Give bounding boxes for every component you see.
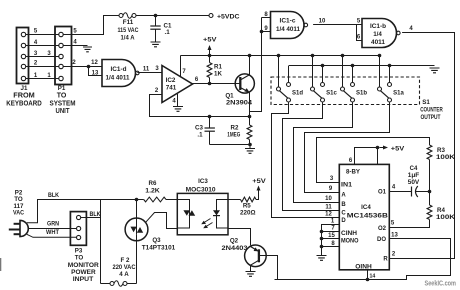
svg-text:MONITOR: MONITOR: [68, 262, 99, 269]
wire S1d output to IC4 pin12 D: [272, 102, 340, 217]
svg-text:D: D: [341, 218, 346, 224]
resistor R5 220ohm: [228, 196, 259, 216]
IC4 pin6 +5V: [349, 145, 405, 164]
wire row 5 (J1-P1 pin 5): [26, 34, 59, 36]
svg-text:KEYBOARD: KEYBOARD: [6, 100, 42, 107]
svg-text:IC3: IC3: [198, 178, 208, 185]
resistor R1 1K: [207, 56, 222, 84]
svg-text:COUNTER: COUNTER: [420, 107, 443, 114]
svg-text:SeekIC.com: SeekIC.com: [425, 281, 457, 288]
svg-text:C4: C4: [410, 166, 418, 172]
ground (IC4 pins): [317, 247, 327, 261]
resistor R6 1.2K: [144, 180, 178, 202]
svg-text:IC2: IC2: [166, 77, 176, 84]
svg-text:S1b: S1b: [356, 91, 367, 97]
svg-text:S1: S1: [422, 99, 430, 106]
svg-text:C3: C3: [195, 125, 203, 132]
svg-text:.1: .1: [197, 132, 203, 139]
terminal +5VDC: [209, 13, 240, 20]
svg-text:P1: P1: [58, 85, 66, 92]
wire IC2 output pin6 to Q1 base: [193, 77, 240, 85]
scan smudge: [0, 258, 1, 271]
svg-text:BLK: BLK: [90, 212, 102, 218]
svg-text:T14PT3101: T14PT3101: [142, 244, 176, 251]
svg-text:CINH: CINH: [341, 231, 357, 237]
svg-text:11: 11: [143, 67, 150, 73]
wire osc node to IC1-c inputs: [250, 18, 262, 112]
svg-text:+5V: +5V: [391, 145, 405, 152]
wire S1c output to IC4 pin11 C: [283, 102, 340, 210]
svg-text:1/4 A: 1/4 A: [121, 35, 135, 42]
svg-text:S1c: S1c: [326, 91, 337, 97]
svg-text:12: 12: [325, 212, 332, 218]
svg-text:WHT: WHT: [46, 230, 59, 236]
wire BLK from plug: [27, 193, 144, 223]
svg-text:J1: J1: [21, 85, 28, 92]
svg-text:.1: .1: [165, 29, 171, 36]
svg-text:POWER: POWER: [71, 269, 96, 276]
svg-text:+5V: +5V: [252, 178, 266, 185]
connector P1: [50, 27, 76, 115]
svg-text:10: 10: [325, 196, 332, 202]
wire fuse to +5VDC terminal: [136, 15, 209, 17]
svg-text:4 A: 4 A: [119, 271, 129, 278]
fuse F11 115VAC 1/4A: [118, 13, 139, 42]
svg-text:50V: 50V: [408, 180, 420, 186]
svg-text:TO: TO: [75, 254, 84, 261]
IC1-b input pins 5,6: [357, 19, 363, 41]
IC4 pin14 OINH stub: [366, 270, 376, 282]
IC4 pin4 O1 wire: [389, 185, 411, 192]
triac Q3 T14PT3101: [125, 198, 177, 284]
wire IC1-b output pin4 to IC4 pin2 R: [389, 26, 454, 259]
wire P3 top pin (BLK) to hot line / fuse leg: [81, 200, 101, 282]
ground (C1): [151, 42, 161, 47]
svg-text:R5: R5: [243, 202, 251, 209]
svg-text:13: 13: [92, 71, 99, 77]
switch S1a: [378, 54, 405, 102]
+5V arrow (R5): [252, 178, 266, 196]
P1 pin circles: [59, 32, 63, 80]
svg-text:S1d: S1d: [292, 91, 303, 97]
connector P3: [68, 212, 99, 283]
svg-text:1/4 4011: 1/4 4011: [106, 75, 131, 82]
svg-text:C: C: [341, 211, 346, 217]
transistor Q1 2N3904: [225, 74, 254, 107]
svg-text:8-BY: 8-BY: [346, 170, 360, 176]
wire IC1-c output pin10 to IC1-b inputs: [313, 19, 356, 25]
svg-text:SYSTEM: SYSTEM: [50, 100, 76, 107]
wire Q1 emitter to node (osc out): [248, 93, 252, 119]
wire P1 pin2 to IC1-d inputs: [63, 60, 102, 77]
svg-text:A: A: [341, 193, 346, 199]
svg-text:IC4: IC4: [361, 204, 371, 211]
+5V arrow (rail): [203, 37, 217, 58]
svg-text:1K: 1K: [214, 71, 222, 78]
svg-text:IC1-c: IC1-c: [280, 18, 297, 25]
wire IC1-d output to IC2 pin3: [137, 66, 162, 73]
IC IC4 MC14536B: [339, 164, 389, 270]
ground (Q2 collector): [246, 265, 256, 276]
pin number labels P1 right side: [72, 29, 77, 67]
ground (R2/C3): [245, 145, 255, 154]
svg-text:S1a: S1a: [393, 91, 404, 97]
svg-text:B: B: [341, 202, 346, 208]
svg-text:15: 15: [328, 233, 335, 239]
svg-text:R1: R1: [214, 64, 222, 71]
svg-text:11: 11: [325, 205, 332, 211]
svg-text:R4: R4: [437, 207, 445, 214]
wire IC2 pin7 to +5V rail: [181, 56, 187, 77]
ground (IC2 pin 4): [172, 94, 183, 111]
switch S1b: [341, 54, 368, 102]
svg-text:OUTPUT: OUTPUT: [421, 114, 441, 121]
svg-text:1/4 4011: 1/4 4011: [276, 26, 301, 33]
pin number labels J1 side: [34, 29, 52, 80]
wire Q1 collector to +5V rail: [248, 54, 252, 75]
capacitor C1 .1: [150, 16, 172, 43]
svg-text:IC1-b: IC1-b: [370, 23, 386, 30]
svg-text:2N4403: 2N4403: [222, 245, 249, 252]
svg-text:IN1: IN1: [341, 183, 353, 189]
wire IC2 pin2 feedback: [150, 88, 250, 117]
ground (bus2 right end): [430, 68, 440, 73]
svg-text:DO: DO: [377, 237, 386, 243]
svg-text:R6: R6: [149, 180, 157, 187]
wire row 1: [26, 78, 59, 80]
wire IC3 to Q2: [228, 229, 251, 246]
svg-text:1.2K: 1.2K: [145, 188, 160, 195]
svg-text:1/4: 1/4: [373, 31, 382, 38]
svg-text:10: 10: [319, 19, 326, 25]
resistor R2 1MEG: [227, 117, 252, 145]
gate IC1-d 1/4 4011: [102, 60, 139, 87]
resistor R4 100K: [389, 192, 455, 228]
wire row 4: [26, 45, 59, 47]
svg-text:+5VDC: +5VDC: [217, 13, 240, 20]
svg-text:VAC: VAC: [13, 210, 24, 217]
svg-text:F11: F11: [123, 19, 134, 26]
svg-text:14: 14: [370, 274, 376, 280]
wire P1 pin5 to fuse F1: [63, 16, 119, 35]
svg-text:12: 12: [91, 60, 98, 66]
wire S1a output to IC4 pin9 A: [305, 102, 390, 192]
connector J1: [6, 28, 42, 108]
ground (P1 pin 4): [63, 46, 92, 52]
svg-text:O2: O2: [378, 226, 387, 232]
svg-text:100K: 100K: [436, 214, 456, 221]
svg-text:MC14536B: MC14536B: [347, 212, 388, 219]
wire row 2: [26, 66, 59, 68]
svg-text:115 VAC: 115 VAC: [118, 27, 139, 34]
svg-text:100K: 100K: [436, 154, 456, 161]
svg-text:MOC3010: MOC3010: [186, 186, 216, 193]
switch block S1 dashed box: [271, 77, 420, 105]
wire WHT from plug to P3: [27, 230, 76, 237]
svg-text:Q1: Q1: [225, 93, 234, 100]
svg-text:+5V: +5V: [203, 37, 217, 44]
IC4 pins 1,7,15,8 tie to ground: [320, 219, 340, 249]
svg-text:IC1-d: IC1-d: [111, 66, 127, 73]
svg-text:4011: 4011: [371, 39, 386, 46]
IC4 left pin number labels: [325, 176, 334, 218]
gate IC1-c 1/4 4011: [271, 12, 308, 39]
svg-text:R3: R3: [437, 147, 445, 154]
svg-text:220Ω: 220Ω: [240, 209, 256, 216]
svg-text:GRN: GRN: [47, 222, 59, 228]
svg-text:MONO: MONO: [341, 238, 359, 244]
svg-text:OINH: OINH: [355, 264, 372, 270]
svg-text:R: R: [383, 257, 388, 263]
ground bus (bus2): [289, 64, 435, 68]
svg-text:F 2: F 2: [121, 257, 130, 264]
wire +5V rail (top bus): [181, 55, 380, 57]
switch S1c: [311, 54, 338, 102]
wire C3 bottom to R2 bottom: [210, 143, 252, 147]
svg-text:13: 13: [391, 232, 398, 238]
op-amp IC2 741: [162, 66, 193, 103]
svg-text:Q3: Q3: [152, 237, 161, 244]
wire IC4 pin3 IN1 to R3/C4: [317, 138, 430, 183]
svg-text:FROM: FROM: [13, 93, 35, 100]
IC4 pin13 DO wire to OINH bus: [275, 232, 451, 279]
capacitor C4 1uF 50V: [408, 166, 430, 197]
plug P2 to 117 VAC: [9, 190, 29, 237]
svg-text:Q2: Q2: [230, 238, 239, 245]
svg-text:TO: TO: [57, 93, 67, 100]
svg-text:2N3904: 2N3904: [226, 100, 253, 107]
wire row 3: [26, 56, 59, 58]
svg-text:1MEG: 1MEG: [227, 133, 240, 139]
switch S1d: [277, 54, 304, 102]
svg-text:INPUT: INPUT: [73, 276, 94, 283]
wire S1b output to IC4 pin10 B: [294, 102, 353, 202]
svg-text:741: 741: [166, 85, 177, 92]
label S1 COUNTER OUTPUT: [420, 99, 443, 121]
svg-text:1μF: 1μF: [408, 173, 420, 179]
gate IC1-b 1/4 4011: [362, 19, 400, 48]
svg-text:UNIT: UNIT: [56, 108, 71, 115]
optocoupler IC3 MOC3010: [177, 178, 228, 235]
wire Q2 base to OINH bus: [259, 256, 278, 280]
wire GRN from plug to P3: [28, 222, 76, 229]
capacitor C3 .1: [195, 115, 215, 145]
IC1-c input pins 8,9: [260, 12, 271, 33]
resistor R3 100K: [427, 145, 456, 193]
fuse F2 220VAC 4A: [101, 257, 137, 286]
svg-text:R2: R2: [231, 125, 239, 132]
svg-text:O1: O1: [378, 190, 387, 196]
transistor Q2 2N4403: [222, 238, 267, 267]
svg-text:BLK: BLK: [48, 193, 60, 199]
